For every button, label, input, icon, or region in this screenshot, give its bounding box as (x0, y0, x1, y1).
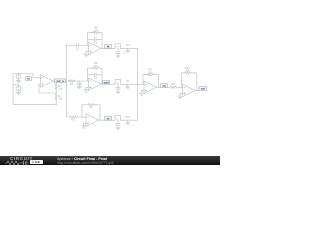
ground U5 (139, 93, 143, 95)
wire U1 noninverting to divider tap (39, 84, 56, 93)
resistor R12 series (170, 86, 176, 88)
svg-text:10k: 10k (58, 97, 63, 100)
svg-text:C1: C1 (76, 48, 80, 51)
wire U2 output (101, 47, 115, 49)
ground U3 (84, 90, 88, 92)
wire U3 feedback left (87, 68, 89, 81)
wire U5 feedback right (157, 75, 159, 88)
ground G1 (16, 79, 20, 83)
junction dots (18, 45, 138, 121)
svg-text:out: out (201, 87, 205, 91)
resistor R8 series (70, 116, 76, 118)
resistor R4 feedback (93, 32, 99, 34)
ground stub R5 (127, 48, 129, 50)
ground shunt U2 (116, 56, 120, 58)
node label su (161, 83, 168, 87)
wire U2 feedback left (87, 33, 89, 46)
jumper J3 (115, 116, 121, 121)
wire to bus (121, 47, 138, 49)
CircuitLab logo wordmark (10, 156, 33, 161)
ground U2 (84, 54, 88, 56)
wire U6 feedback top (182, 72, 185, 74)
wire bottom branch (66, 116, 70, 118)
resistor R3 series (69, 80, 75, 82)
wire U3 output (101, 83, 115, 85)
svg-text:1u: 1u (123, 52, 126, 55)
wire left rail (12, 74, 14, 105)
svg-text:R9: R9 (89, 105, 93, 109)
wire U4 feedback left (81, 105, 83, 117)
svg-text:C4: C4 (94, 76, 98, 80)
wire U1 output (53, 80, 89, 82)
voltage source V2 (16, 85, 21, 91)
wire source rail top (13, 73, 33, 75)
wire U4 output (99, 119, 115, 121)
resistor R6 feedback (93, 67, 99, 69)
wire bottom rail (13, 103, 56, 105)
wire U6 feedback right (196, 73, 198, 91)
logo LAB badge (30, 160, 43, 164)
divider leg (55, 81, 57, 84)
capacitor C2 feedback (94, 38, 96, 42)
wire U6 noninverting input (180, 94, 183, 97)
wire U3 feedback mid (88, 74, 94, 76)
svg-text:10k: 10k (148, 70, 153, 74)
svg-text:10k: 10k (185, 69, 190, 73)
wire to bus (121, 83, 138, 85)
node label out1 (54, 79, 65, 83)
svg-text:in: in (27, 77, 30, 81)
logo resistor and capacitor squiggle (5, 160, 35, 166)
op-amp U2 (89, 42, 102, 55)
wire U6 feedback left (181, 73, 183, 87)
svg-text:out_a: out_a (56, 79, 64, 83)
wire U3 feedback right (101, 68, 103, 84)
op-amp U4 (86, 114, 99, 127)
capacitor C4 feedback (94, 73, 96, 77)
jumper J1 (115, 44, 121, 49)
svg-text:10k: 10k (93, 64, 98, 68)
resistor R1 divider top (55, 84, 57, 89)
op-amp U3 (89, 78, 102, 91)
schematic canvas (0, 0, 220, 165)
svg-text:10k: 10k (58, 87, 63, 90)
jumper J2 (115, 80, 121, 85)
capacitor C6 shunt (116, 88, 120, 92)
wire V2 top (13, 84, 19, 86)
wire shunt stub low (117, 120, 119, 124)
voltage source V1 (16, 74, 21, 79)
wire U2 feedback mid (88, 38, 94, 40)
footer bar (0, 156, 220, 165)
wire U2 feedback right (101, 33, 103, 49)
resistor R13 feedback (185, 72, 191, 74)
bus vertical left (65, 45, 67, 117)
capacitor C1 series (77, 43, 79, 47)
resistor R9 feedback (88, 104, 94, 106)
wire U5 feedback left (142, 75, 144, 84)
svg-text:R5: R5 (126, 44, 130, 47)
ground shunt U4 (116, 127, 120, 129)
wire U5 feedback top (143, 74, 147, 76)
resistor R11 feedback (147, 74, 153, 76)
wire U6 output (195, 89, 199, 91)
footer line 1 (57, 157, 107, 161)
wire shunt stub (117, 48, 119, 52)
svg-text:C2: C2 (94, 41, 98, 45)
ground G2 (16, 91, 20, 95)
op-amp U1 (40, 75, 53, 88)
wire to bus low (121, 119, 138, 121)
wire U3 feedback top (88, 67, 93, 69)
ground stub R10 (127, 120, 129, 122)
svg-text:R8: R8 (71, 119, 75, 122)
node label mid (103, 80, 110, 84)
ground shunt U3 (116, 91, 120, 93)
svg-text:su: su (162, 83, 166, 87)
wire U4 noninverting input (84, 123, 87, 126)
ground U6 (178, 96, 182, 98)
svg-text:R10: R10 (126, 116, 131, 119)
svg-text:R3: R3 (70, 83, 74, 86)
op-amp U5 (144, 81, 157, 94)
wire U2 feedback top (88, 32, 93, 34)
ground mid shunt (77, 86, 81, 88)
wire top branch (66, 44, 76, 46)
capacitor C7 shunt (116, 124, 120, 128)
svg-text:lo: lo (107, 116, 110, 120)
svg-text:mid: mid (104, 80, 109, 84)
wire U4 feedback top (82, 104, 88, 106)
capacitor C3 shunt (116, 52, 120, 56)
footer line 2 (57, 161, 114, 165)
wire U4 feedback right (99, 105, 101, 120)
svg-text:hi: hi (107, 45, 110, 49)
wire U5 output (157, 86, 170, 88)
bus vertical right (137, 48, 139, 120)
wire U3 noninverting input (86, 87, 89, 90)
shunt capacitor mid (78, 81, 80, 83)
wire U5 noninverting input (142, 90, 145, 93)
op-amp U6 (183, 84, 196, 97)
ground stub R7 (127, 84, 129, 86)
wire U2 noninverting input (86, 52, 89, 55)
svg-text:10k: 10k (93, 28, 98, 32)
node label out (199, 87, 207, 91)
wire into U1 (33, 74, 40, 78)
node label in (26, 77, 32, 81)
ground U4 (81, 126, 85, 128)
wire bus to U5 (138, 83, 145, 85)
node label lo (105, 116, 112, 120)
node label hi (105, 45, 112, 49)
resistor R2 divider bottom (55, 94, 57, 99)
svg-text:R7: R7 (126, 80, 130, 83)
svg-text:R12: R12 (171, 83, 176, 86)
